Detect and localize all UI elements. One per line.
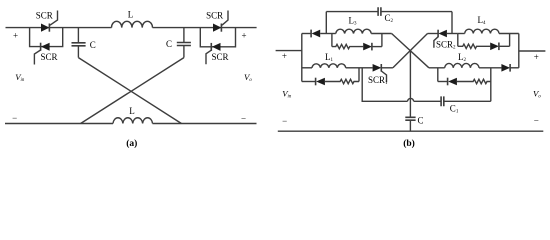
thyristor SCR1 (b) [359, 64, 393, 82]
capacitor C1 (b) [441, 96, 444, 106]
resistor R in L4 branch (b) [458, 44, 490, 48]
inductor L1 (b) [302, 64, 359, 68]
wire SCR loop left (a) [30, 28, 63, 47]
wire center vertical (b) [409, 50, 411, 117]
wire bottom rail (a) [5, 123, 257, 125]
svg-text:−: − [241, 113, 246, 123]
wire C1 line left (b) [414, 100, 441, 102]
svg-text:+: + [282, 51, 287, 61]
wire C2 left vertical (b) [325, 12, 327, 34]
inductor L bottom (a) [113, 118, 153, 124]
svg-text:SCR2: SCR2 [436, 40, 456, 51]
wire C2 right vertical (b) [451, 12, 453, 34]
wire C1 line right (b) [444, 100, 491, 102]
svg-text:−: − [282, 116, 287, 126]
resistor R in L2 branch (b) [457, 79, 491, 83]
thyristor SCR2 (b) [428, 30, 458, 48]
svg-text:SCR: SCR [211, 52, 228, 62]
wire top rail (a) [6, 27, 257, 29]
svg-text:−: − [534, 115, 539, 125]
inductor L4 (b) [458, 29, 519, 46]
resistor R top-left (b) [332, 44, 363, 48]
wire diagonal right-to-left (a) [81, 58, 184, 124]
capacitor C right (a) [177, 28, 191, 58]
wire C1 branch drop from SCR1 node (b) [362, 68, 407, 102]
wire right vertical (b) [518, 34, 520, 68]
svg-text:SCR: SCR [36, 11, 53, 21]
svg-text:(a): (a) [126, 138, 137, 149]
capacitor C left (a) [72, 28, 86, 58]
svg-text:L: L [128, 10, 134, 20]
diode D in L2 branch (b) [438, 78, 457, 86]
wire L1 right bar (b) [358, 68, 360, 82]
thyristor SCR bottom-left (a) [34, 43, 49, 65]
wire center vertical lower (b) [409, 121, 411, 132]
resistor R in L1 branch (b) [325, 79, 359, 83]
wire L4 right bar (b) [509, 34, 511, 47]
svg-text:+: + [534, 52, 539, 62]
inductor L2 (b) [429, 63, 502, 81]
svg-text:C: C [166, 39, 172, 49]
svg-text:−: − [12, 113, 17, 123]
diode D top-left (b) [302, 30, 336, 38]
diode D in L3 branch (b) [363, 43, 382, 51]
wire L2 right bar + C1 drop (b) [490, 68, 492, 102]
wire C2 top line left (b) [326, 11, 378, 13]
diode D in L1 branch (b) [302, 78, 325, 86]
inductor L3 (b) [332, 29, 371, 46]
wire diagonal mid-left to top-right (b) [393, 34, 428, 68]
svg-text:+: + [13, 31, 18, 41]
capacitor C2 (b) [378, 7, 381, 16]
wire SCR loop right (a) [200, 28, 235, 47]
svg-text:+: + [241, 30, 246, 40]
wire C2 top line right (b) [381, 11, 452, 13]
wire L3 right bar (b) [381, 34, 383, 47]
svg-text:(b): (b) [403, 138, 415, 149]
svg-text:SCR1: SCR1 [368, 75, 388, 86]
thyristor SCR top-left (a) [41, 11, 58, 32]
diode D in L4 branch (b) [490, 43, 509, 51]
capacitor C center (b) [405, 117, 415, 120]
svg-text:SCR: SCR [40, 52, 57, 62]
wire diagonal top-left to mid-right (b) [392, 34, 429, 68]
thyristor SCR top-right (a) [213, 11, 228, 32]
svg-text:SCR: SCR [206, 11, 223, 21]
wire left vertical (b) [301, 34, 303, 82]
wire hop over center vertical (b) [408, 98, 414, 101]
svg-text:C: C [90, 40, 96, 50]
wire diagonal left-to-right (a) [78, 58, 181, 124]
svg-text:C: C [418, 116, 424, 126]
wire L3 output (b) [371, 33, 391, 35]
wire input rail (b) [276, 50, 302, 52]
thyristor SCR bottom-right (a) [206, 43, 221, 64]
wire bottom rail (b) [278, 130, 544, 132]
svg-text:L: L [129, 106, 135, 116]
inductor L top (a) [112, 21, 153, 27]
diode D output right (b) [501, 64, 518, 72]
wire output rail (b) [519, 50, 546, 52]
